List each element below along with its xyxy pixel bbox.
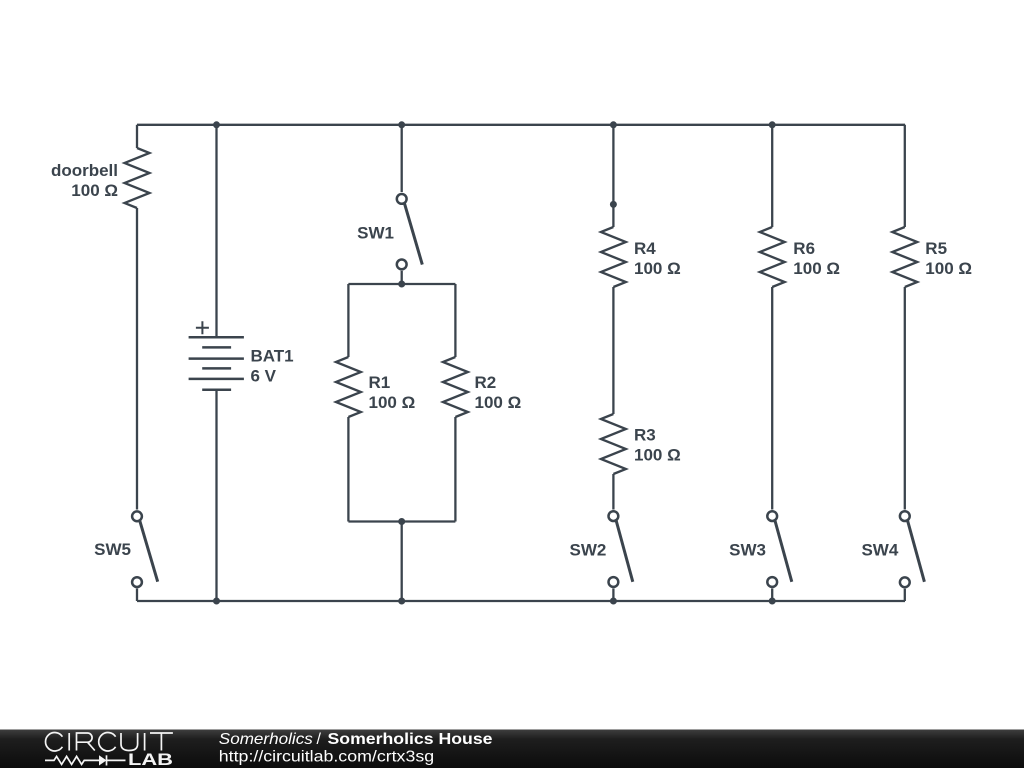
logo resistor-diode symbol	[45, 755, 126, 765]
switch SW5	[94, 511, 158, 587]
svg-text:http://circuitlab.com/crtx3sg: http://circuitlab.com/crtx3sg	[219, 749, 434, 766]
svg-text:SW2: SW2	[570, 541, 607, 560]
wire R6 to SW3	[771, 287, 773, 510]
wire battery bottom	[215, 390, 217, 601]
wire bottom rail	[137, 600, 905, 602]
svg-text:R2: R2	[475, 373, 497, 392]
wire R1 top lead	[347, 284, 349, 357]
footer bar	[0, 730, 1024, 768]
resistor doorbell	[51, 148, 150, 208]
resistor R6	[760, 227, 840, 287]
svg-text:SW5: SW5	[94, 540, 131, 559]
switch SW3	[729, 511, 792, 587]
battery BAT1	[189, 321, 294, 390]
wire battery top	[215, 125, 217, 337]
switch SW4	[861, 511, 924, 587]
svg-text:SW3: SW3	[729, 541, 766, 560]
node above R4	[610, 201, 617, 208]
svg-text:doorbell: doorbell	[51, 161, 118, 180]
resistor R5	[892, 227, 972, 287]
wire box bottom to rail	[401, 522, 403, 602]
svg-text:100 Ω: 100 Ω	[369, 393, 416, 412]
resistor R1	[336, 357, 415, 417]
svg-text:R6: R6	[793, 239, 815, 258]
svg-text:R3: R3	[634, 426, 656, 445]
wire R1 bottom lead	[347, 417, 349, 522]
wire box bottom horizontal	[348, 520, 455, 522]
logo CIRCUIT wordmark	[46, 733, 173, 751]
node box bottom center junction	[398, 518, 405, 525]
wire SW3 to bottom rail	[771, 588, 773, 601]
wire SW5 to bottom rail	[136, 589, 138, 602]
node R4 top rail junction	[610, 121, 617, 128]
switch SW1	[357, 194, 422, 269]
wire R5 to SW4	[904, 287, 906, 510]
wire R2 top lead	[454, 284, 456, 357]
node battery bottom rail junction	[213, 598, 220, 605]
svg-text:/: /	[317, 731, 322, 748]
svg-text:100 Ω: 100 Ω	[793, 259, 840, 278]
node SW1 top rail junction	[398, 121, 405, 128]
svg-text:6 V: 6 V	[251, 367, 277, 386]
wire left column top (rail to doorbell)	[136, 125, 138, 148]
svg-text:R1: R1	[369, 373, 391, 392]
node battery top rail junction	[213, 121, 220, 128]
wire SW1 to box top	[401, 271, 403, 284]
switch SW2	[570, 511, 633, 587]
wire SW1 top	[401, 125, 403, 192]
svg-text:100 Ω: 100 Ω	[925, 259, 972, 278]
svg-text:BAT1: BAT1	[251, 347, 294, 366]
wire R5 top lead	[904, 125, 906, 227]
svg-text:SW1: SW1	[357, 224, 394, 243]
wire R4 top lead	[612, 125, 614, 227]
wire R2 bottom lead	[454, 417, 456, 522]
svg-text:R4: R4	[634, 239, 656, 258]
node box top center junction	[398, 281, 405, 288]
svg-text:R5: R5	[925, 239, 947, 258]
resistor R4	[601, 227, 681, 287]
wire left column middle (doorbell to SW5)	[136, 208, 138, 510]
wire top rail	[137, 124, 905, 126]
wire R6 top lead	[771, 125, 773, 227]
wire R4 to R3	[612, 287, 614, 414]
svg-text:100 Ω: 100 Ω	[634, 446, 681, 465]
svg-text:Somerholics: Somerholics	[219, 731, 313, 748]
svg-text:LAB: LAB	[128, 751, 173, 768]
wire SW2 to bottom rail	[612, 588, 614, 601]
svg-text:Somerholics House: Somerholics House	[328, 731, 493, 748]
resistor R2	[443, 357, 521, 417]
node center bottom rail junction	[398, 598, 405, 605]
svg-text:100 Ω: 100 Ω	[634, 259, 681, 278]
node R6 top rail junction	[769, 121, 776, 128]
svg-text:100 Ω: 100 Ω	[71, 181, 118, 200]
wire SW4 to bottom rail	[904, 589, 906, 601]
svg-text:100 Ω: 100 Ω	[475, 393, 522, 412]
wire box top horizontal	[348, 283, 455, 285]
resistor R3	[601, 414, 681, 474]
wire R3 to SW2	[612, 474, 614, 510]
node SW3 bottom rail junction	[769, 598, 776, 605]
svg-text:SW4: SW4	[861, 541, 898, 560]
node SW2 bottom rail junction	[610, 598, 617, 605]
